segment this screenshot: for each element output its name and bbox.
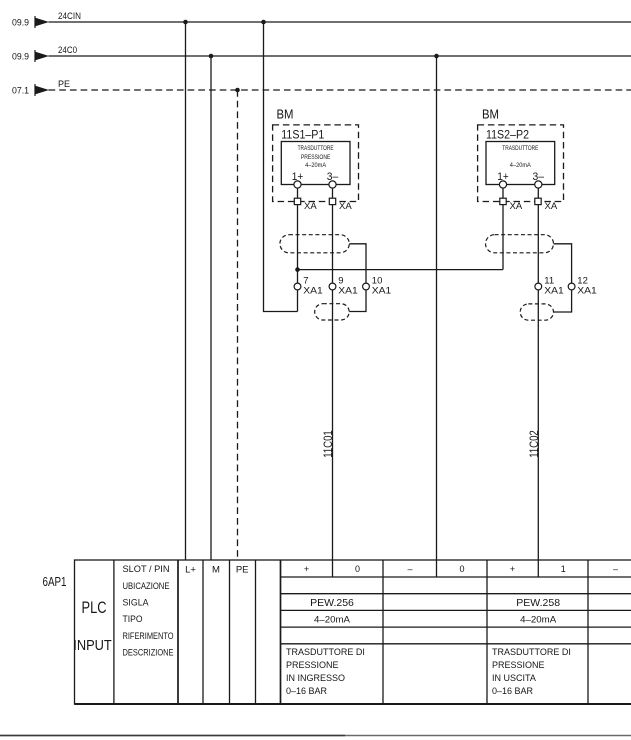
wire L+ drop to PLC (185, 22, 187, 560)
svg-text:PE: PE (236, 564, 249, 575)
cable shield oval upper left (280, 235, 349, 253)
svg-text:SLOT / PIN: SLOT / PIN (123, 564, 170, 574)
row line tipo/riferimento (281, 626, 631, 628)
column line ch0/ch- (382, 560, 384, 704)
connector pin 12 XA1 (568, 283, 575, 290)
PLC table outer frame (75, 560, 631, 704)
svg-text:24CIN: 24CIN (58, 11, 81, 21)
cable shield oval lower right (520, 304, 553, 320)
svg-text:11S1–P1: 11S1–P1 (281, 128, 324, 142)
connector pin 7 XA1 (294, 283, 301, 290)
cable shield oval lower left (315, 304, 350, 320)
svg-text:1: 1 (561, 564, 566, 574)
terminal circle P2 pin3 (535, 181, 542, 188)
svg-text:PEW.256: PEW.256 (310, 597, 354, 609)
junction on 24CIN at branch (261, 20, 266, 25)
svg-text:XA: XA (339, 201, 352, 212)
column line PE/spare (255, 560, 257, 704)
svg-text:24C0: 24C0 (58, 45, 77, 55)
svg-text:4–20mA: 4–20mA (520, 615, 556, 625)
svg-text:4–20mA: 4–20mA (510, 162, 532, 169)
svg-text:TRASDUTTORE DI: TRASDUTTORE DI (286, 647, 365, 657)
row line sigla/tipo (281, 609, 631, 611)
junction on 24C0 at branch (434, 54, 439, 59)
row line slot/ubicazione (281, 576, 631, 578)
wire M drop to PLC (210, 56, 212, 560)
wire transducer P1 pin3- down to PLC channel 0 (11C01) (332, 185, 334, 578)
column line ch1/right (587, 560, 589, 704)
svg-text:+: + (510, 564, 515, 574)
connector pin 9 XA1 (329, 283, 336, 290)
svg-text:INPUT: INPUT (73, 638, 112, 654)
wire bus PE (dashed) (49, 89, 631, 91)
row line riferimento/descrizione (281, 643, 631, 645)
terminal circle P1 pin1 (294, 181, 301, 188)
svg-text:XA1: XA1 (577, 285, 597, 296)
transducer body U2 (486, 142, 555, 185)
junction on 24CIN at L+ drop (183, 20, 188, 25)
svg-text:–: – (613, 564, 618, 574)
svg-text:09.9: 09.9 (12, 51, 29, 61)
svg-text:IN INGRESSO: IN INGRESSO (286, 673, 345, 683)
source arrow 24CIN (35, 16, 49, 28)
column line spare/signals (280, 560, 282, 704)
plug square XA on P2 pin1 (500, 198, 506, 204)
wire transducer P2 pin1+ down to signal link (502, 185, 504, 270)
terminal circle P2 pin1 (499, 181, 506, 188)
svg-text:XA1: XA1 (338, 285, 358, 296)
terminal circle P1 pin3 (329, 181, 336, 188)
plug square XA on P2 pin3 (535, 198, 541, 204)
svg-text:BM: BM (482, 108, 499, 122)
source arrow PE (35, 84, 49, 96)
svg-text:+: + (304, 564, 309, 574)
wire link P1 pin1+ to P2 pin1+ (298, 269, 504, 271)
wire bus 24CIN (49, 21, 631, 23)
svg-text:BM: BM (277, 108, 294, 122)
svg-text:IN USCITA: IN USCITA (492, 673, 536, 683)
transducer unit 11S1-P1 dashed enclosure (273, 125, 359, 202)
source arrow 24C0 (35, 50, 49, 62)
svg-text:TRASDUTTORE DI: TRASDUTTORE DI (492, 647, 571, 657)
svg-text:–: – (407, 564, 412, 574)
svg-text:11C01: 11C01 (323, 430, 335, 458)
row line ubicazione/sigla (281, 593, 631, 595)
svg-text:L+: L+ (185, 564, 196, 575)
plug square XA on P1 pin1 (294, 198, 300, 204)
svg-text:TRASDUTTORE: TRASDUTTORE (298, 145, 334, 152)
svg-text:PEW.258: PEW.258 (516, 597, 560, 609)
svg-text:PRESSIONE: PRESSIONE (301, 154, 331, 161)
transducer unit 11S2-P2 dashed enclosure (478, 125, 564, 202)
descrizione ch0 (286, 647, 365, 696)
svg-text:07.1: 07.1 (12, 85, 29, 95)
junction on 24C0 at M drop (209, 54, 214, 59)
svg-text:M: M (212, 564, 220, 575)
svg-text:09.9: 09.9 (12, 17, 29, 27)
svg-text:PRESSIONE: PRESSIONE (286, 660, 339, 670)
svg-text:PRESSIONE: PRESSIONE (492, 660, 545, 670)
svg-text:11S2–P2: 11S2–P2 (486, 128, 529, 142)
svg-text:XA1: XA1 (303, 285, 323, 296)
svg-text:0: 0 (459, 564, 464, 574)
svg-text:DESCRIZIONE: DESCRIZIONE (123, 648, 174, 658)
svg-text:UBICAZIONE: UBICAZIONE (123, 581, 170, 591)
svg-text:0–16 BAR: 0–16 BAR (286, 686, 328, 696)
svg-text:TIPO: TIPO (123, 614, 143, 624)
title block top border dark segment (0, 735, 345, 737)
junction at P1 pin1+ link (295, 267, 300, 272)
column line PLC/labels (113, 560, 115, 704)
column line M/PE (229, 560, 231, 704)
wire transducer P1 pin1+ down through XA to pin 7 (297, 185, 299, 312)
svg-text:TRASDUTTORE: TRASDUTTORE (502, 145, 538, 152)
svg-text:PE: PE (58, 79, 70, 89)
svg-text:4–20mA: 4–20mA (314, 615, 350, 625)
svg-text:4–20mA: 4–20mA (305, 162, 327, 169)
junction on PE at drop (235, 88, 240, 93)
plug square XA on P1 pin3 (329, 198, 335, 204)
cable shield oval upper right (486, 235, 554, 253)
wire bus 24C0 (49, 55, 631, 57)
wire shield tap right to pin 12 (554, 244, 572, 312)
svg-text:XA1: XA1 (544, 285, 564, 296)
column line L+/M (202, 560, 204, 704)
svg-text:0: 0 (355, 564, 360, 574)
wire 24CIN branch to pin 7 (264, 22, 298, 312)
wire 24C0 branch to PLC minus terminal (436, 56, 438, 577)
svg-text:11C02: 11C02 (529, 430, 541, 458)
svg-text:XA: XA (545, 201, 558, 212)
PLC table bottom border (75, 703, 631, 705)
connector pin 11 XA1 (535, 283, 542, 290)
title block top border (0, 735, 631, 737)
svg-text:0–16 BAR: 0–16 BAR (492, 686, 534, 696)
svg-text:6AP1: 6AP1 (43, 575, 67, 589)
column line labels/L+ (177, 560, 179, 704)
svg-text:XA: XA (304, 201, 317, 212)
descrizione ch1 (492, 647, 571, 696)
wire shield tap left to pin 10 (349, 244, 366, 312)
transducer body U1 (281, 142, 350, 185)
wire PE drop to PLC (dashed) (237, 90, 239, 560)
svg-text:XA: XA (510, 201, 523, 212)
svg-text:PLC: PLC (82, 598, 107, 617)
wire transducer P2 pin3- down to PLC channel 1 (11C02) (537, 185, 539, 578)
svg-text:RIFERIMENTO: RIFERIMENTO (123, 631, 174, 641)
svg-text:SIGLA: SIGLA (123, 598, 149, 608)
svg-text:XA1: XA1 (372, 285, 392, 296)
column line ch-/ch1 (486, 560, 488, 704)
connector pin 10 XA1 (363, 283, 370, 290)
